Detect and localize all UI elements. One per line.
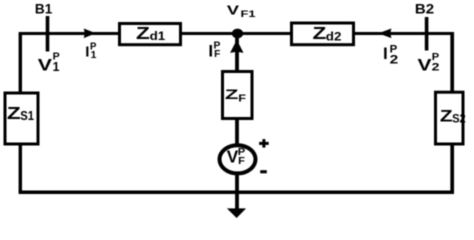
ground xyxy=(227,208,246,218)
label V2 P xyxy=(418,51,440,75)
bus bar B1 xyxy=(46,16,50,52)
resistor Zd2 xyxy=(292,23,354,45)
label I2 P xyxy=(383,43,399,66)
svg-text:V: V xyxy=(418,56,433,75)
svg-text:V: V xyxy=(227,146,239,166)
svg-text:V: V xyxy=(227,2,239,17)
svg-text:Z: Z xyxy=(440,107,453,126)
svg-text:I: I xyxy=(85,44,89,61)
plus polarity mark xyxy=(259,139,269,148)
svg-text:S2: S2 xyxy=(452,112,466,126)
wire left vertical xyxy=(19,32,22,192)
resistor Zd1 xyxy=(120,24,181,45)
wire bottom horizontal xyxy=(19,190,454,194)
svg-text:F: F xyxy=(214,49,220,60)
svg-text:1: 1 xyxy=(91,50,97,61)
label Zs1 xyxy=(7,103,34,123)
arrow current I2 pointing left xyxy=(378,29,391,39)
svg-text:2: 2 xyxy=(390,53,399,67)
svg-text:S1: S1 xyxy=(20,109,34,123)
node VF1 junction dot xyxy=(232,29,243,39)
svg-text:B1: B1 xyxy=(35,0,53,16)
label Zs2 xyxy=(440,107,466,126)
label VF1 xyxy=(227,2,256,19)
impedance Zs1 xyxy=(5,93,38,144)
svg-text:F: F xyxy=(238,156,245,167)
label VF P inside source xyxy=(227,146,246,166)
svg-text:Z: Z xyxy=(136,23,150,43)
svg-text:Z: Z xyxy=(7,103,21,123)
impedance ZF xyxy=(223,72,253,119)
source VF ellipse xyxy=(220,145,256,173)
svg-text:F: F xyxy=(238,94,246,105)
svg-text:2: 2 xyxy=(432,62,440,74)
label ZF xyxy=(225,86,246,105)
minus polarity mark xyxy=(260,170,267,173)
label V1 P xyxy=(38,51,60,74)
svg-text:B2: B2 xyxy=(415,0,434,16)
wire top horizontal bus B1 to B2 xyxy=(20,32,452,35)
svg-text:Z: Z xyxy=(313,23,327,43)
wire middle vertical fault branch xyxy=(235,34,239,211)
svg-text:V: V xyxy=(38,56,53,75)
svg-text:F1: F1 xyxy=(241,9,256,19)
svg-text:1: 1 xyxy=(53,60,60,74)
arrow current IF pointing up xyxy=(230,40,243,53)
arrow current I1 pointing right xyxy=(84,29,96,39)
svg-text:Z: Z xyxy=(225,86,239,102)
label Zd2 xyxy=(313,23,342,43)
label I1 P xyxy=(85,42,97,61)
label IF P xyxy=(208,40,220,60)
bus bar B2 xyxy=(425,17,429,51)
label Zd1 xyxy=(136,23,166,43)
svg-text:d1: d1 xyxy=(150,29,166,43)
wire right vertical xyxy=(450,32,454,192)
svg-text:I: I xyxy=(383,44,388,63)
impedance Zs2 xyxy=(436,92,464,144)
svg-text:d2: d2 xyxy=(326,29,342,43)
svg-text:I: I xyxy=(208,42,213,61)
